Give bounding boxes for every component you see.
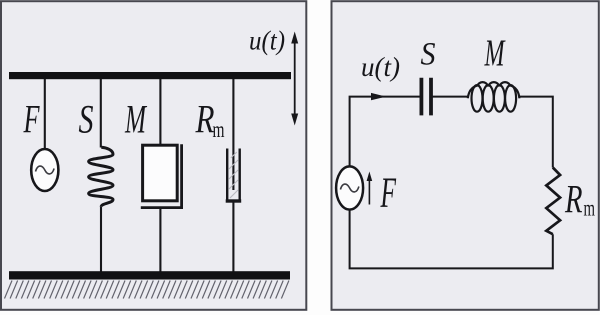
wire Rm bottom: [232, 201, 234, 272]
wire top left (right panel): [350, 97, 421, 167]
wire Rm rod: [232, 79, 234, 190]
svg-text:S: S: [421, 37, 436, 73]
svg-text:m: m: [213, 117, 225, 142]
label Rm right: [564, 177, 595, 222]
mass frame bracket: [141, 144, 183, 207]
spring S: [89, 147, 113, 207]
capacitor S plates: [421, 78, 431, 116]
svg-text:u(t): u(t): [249, 26, 285, 56]
wire inductor to corner and down: [519, 97, 552, 168]
wire S top: [100, 79, 102, 148]
svg-text:M: M: [124, 97, 147, 142]
sine inside right F: [340, 184, 359, 192]
arrow up beside source: [367, 172, 373, 205]
svg-text:u(t): u(t): [361, 52, 400, 82]
svg-text:S: S: [79, 97, 94, 142]
wire resistor to bottom corner: [350, 210, 553, 269]
wire S bottom: [100, 207, 102, 272]
svg-text:m: m: [584, 196, 596, 221]
svg-text:R: R: [564, 177, 582, 222]
top rigid bar: [9, 72, 291, 79]
current arrow: [371, 93, 386, 100]
left panel frame: [1, 1, 306, 310]
bottom rigid bar: [9, 271, 290, 279]
damper Rm cup: [226, 149, 242, 202]
wire cap to inductor: [431, 96, 468, 98]
svg-text:F: F: [23, 97, 40, 142]
wire M bottom: [159, 208, 161, 272]
svg-text:F: F: [380, 170, 397, 217]
label Rm: [195, 97, 225, 143]
mass M box: [143, 145, 178, 201]
ground hatching: [5, 281, 289, 299]
source F right: [336, 166, 363, 209]
wire M top: [159, 79, 161, 145]
inductor M coil: [468, 82, 520, 112]
sine inside F: [36, 166, 55, 174]
resistor Rm zigzag: [546, 168, 560, 235]
wire F top: [44, 79, 46, 149]
svg-text:M: M: [484, 33, 506, 75]
source F (force): [31, 149, 58, 191]
velocity double arrow: [291, 32, 298, 126]
right panel frame: [332, 1, 599, 310]
